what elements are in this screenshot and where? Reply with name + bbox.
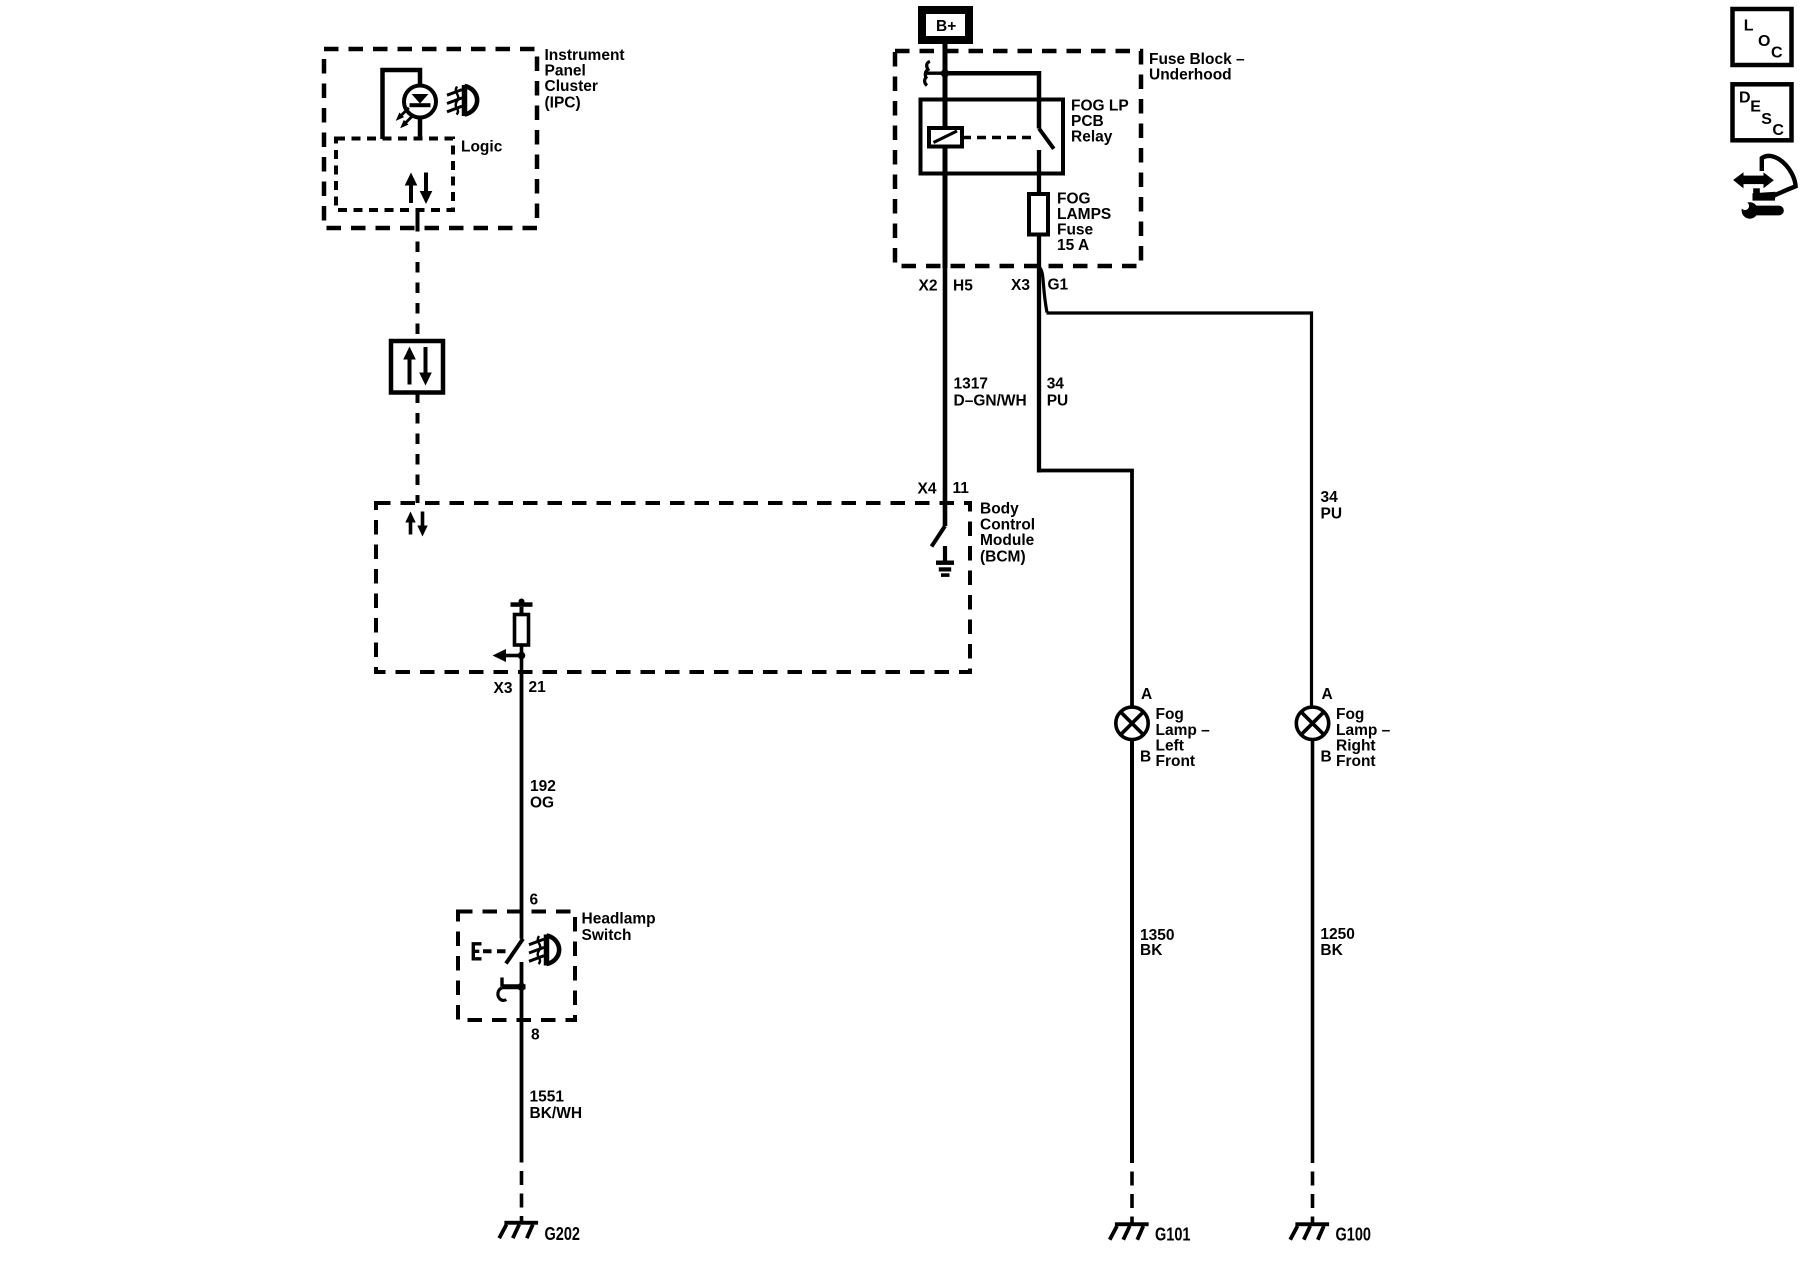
svg-text:34: 34 [1321, 489, 1339, 506]
actuator dashed link [483, 949, 506, 953]
FOG LP PCB Relay box [921, 100, 1064, 174]
label FOG LP PCB Relay [1071, 98, 1129, 146]
fog lamp left front [1116, 707, 1148, 739]
ground G101 [1110, 1222, 1149, 1239]
wire 34 PU to left fog lamp [1039, 471, 1132, 708]
svg-text:X3: X3 [494, 680, 513, 697]
logic down arrow [420, 173, 433, 205]
svg-text:Logic: Logic [461, 139, 503, 156]
label Fog Lamp - Right Front [1336, 706, 1391, 770]
svg-text:(IPC): (IPC) [545, 95, 581, 112]
switch lower contact [498, 978, 526, 1001]
svg-text:G101: G101 [1155, 1224, 1191, 1245]
label Fog Lamp - Left Front [1156, 706, 1211, 770]
Instrument Panel Cluster (IPC) box [324, 49, 537, 228]
svg-text:BK/WH: BK/WH [530, 1105, 583, 1122]
wire label 1317 D-GN/WH [954, 376, 1027, 410]
svg-text:G202: G202 [545, 1223, 581, 1244]
svg-text:FOG: FOG [1057, 191, 1091, 208]
svg-text:Underhood: Underhood [1149, 67, 1232, 84]
wire label 34 PU (left run) [1047, 376, 1069, 410]
DESC reference box [1733, 84, 1792, 140]
svg-text:B: B [1321, 748, 1332, 765]
svg-text:BK: BK [1320, 942, 1343, 959]
svg-text:Lamp –: Lamp – [1336, 722, 1391, 739]
fog lamp icon in IPC [447, 85, 477, 116]
svg-text:B: B [1140, 748, 1151, 765]
junction node on B+ wire [941, 69, 949, 77]
wire dashed serial data box to BCM [416, 393, 420, 504]
wire 34 PU branch to right fog lamp [1047, 313, 1312, 708]
label FOG LAMPS Fuse 15 A [1057, 191, 1111, 255]
svg-text:D–GN/WH: D–GN/WH [954, 393, 1027, 410]
wire label 1250 BK [1320, 926, 1354, 959]
Fuse Block - Underhood box [895, 51, 1141, 266]
wire dashed IPC to serial data box [416, 242, 420, 342]
svg-text:11: 11 [953, 480, 970, 497]
svg-text:21: 21 [529, 679, 547, 696]
double-headed arrow icon [1733, 172, 1774, 188]
svg-text:Switch: Switch [582, 927, 632, 944]
svg-text:Panel: Panel [545, 63, 586, 80]
LED indicator lamp in IPC [404, 86, 436, 118]
switch actuator bracket [473, 944, 481, 959]
svg-text:15 A: 15 A [1057, 237, 1089, 254]
svg-text:Fog: Fog [1156, 706, 1184, 723]
fog lamp icon in headlamp switch [529, 935, 559, 966]
svg-text:PU: PU [1047, 393, 1069, 410]
Logic box [336, 139, 453, 211]
svg-text:G100: G100 [1336, 1224, 1372, 1245]
wire B+ feed down to relay coil [943, 44, 948, 268]
svg-text:Lamp –: Lamp – [1156, 722, 1211, 739]
logic up arrow [405, 173, 418, 204]
wire junction to relay switch [945, 73, 1039, 128]
svg-text:6: 6 [530, 892, 539, 909]
fusible element squiggle [924, 62, 942, 86]
svg-text:X4: X4 [918, 481, 937, 498]
svg-text:FOG LP: FOG LP [1071, 98, 1129, 115]
wrench icon [1741, 202, 1779, 219]
svg-text:1317: 1317 [954, 376, 988, 393]
svg-text:D: D [1739, 90, 1751, 107]
wire label 192 OG [530, 778, 556, 812]
relay actuation dashed link [962, 136, 1034, 140]
svg-text:OG: OG [530, 795, 554, 812]
BCM serial data down arrow [417, 512, 427, 537]
svg-text:O: O [1758, 33, 1770, 50]
LED light emission arrows [393, 108, 413, 131]
svg-text:B+: B+ [936, 18, 956, 35]
wire 1551 BK/WH switch to ground [520, 962, 524, 1163]
fog lamp right front [1296, 707, 1328, 739]
svg-text:L: L [1744, 18, 1754, 35]
wire 192 OG BCM to headlamp switch [520, 672, 524, 939]
svg-text:S: S [1761, 111, 1772, 128]
svg-text:Relay: Relay [1071, 129, 1113, 146]
svg-text:G1: G1 [1048, 277, 1069, 294]
svg-text:Left: Left [1156, 738, 1184, 755]
wire dashed tail to G100 [1311, 1172, 1315, 1223]
svg-text:1250: 1250 [1320, 926, 1354, 943]
wire label 1350 BK [1140, 927, 1174, 959]
wire 1350 BK left lamp to ground [1130, 740, 1134, 1164]
svg-text:Fuse: Fuse [1057, 222, 1094, 239]
wire relay contact to fuse [1037, 150, 1041, 194]
wire 1317 fuse block to BCM [943, 266, 948, 526]
svg-text:Right: Right [1336, 738, 1376, 755]
wire label 34 PU (right run) [1321, 489, 1343, 523]
svg-text:1551: 1551 [530, 1089, 565, 1106]
serial data down arrow [419, 347, 432, 386]
serial data up arrow [403, 347, 416, 385]
svg-text:C: C [1771, 45, 1783, 62]
svg-text:34: 34 [1047, 376, 1065, 393]
ground G202 [499, 1221, 538, 1238]
svg-text:Fuse Block –: Fuse Block – [1149, 51, 1245, 68]
wire LED to Logic box [418, 118, 423, 140]
svg-text:C: C [1772, 122, 1784, 139]
label Fuse Block - Underhood [1149, 51, 1245, 84]
svg-text:H5: H5 [953, 278, 973, 295]
ground G100 [1290, 1222, 1329, 1239]
svg-text:Front: Front [1156, 753, 1196, 770]
label Instrument Panel Cluster (IPC) [545, 47, 625, 112]
svg-text:Control: Control [980, 517, 1035, 534]
wire 1250 BK right lamp to ground [1311, 740, 1315, 1164]
wire Logic box to IPC edge [416, 210, 420, 232]
BCM input resistor [515, 615, 529, 646]
svg-text:A: A [1322, 686, 1333, 703]
svg-text:BK: BK [1140, 942, 1163, 959]
svg-text:8: 8 [531, 1027, 540, 1044]
BCM input pull-up T-bar [511, 599, 533, 615]
svg-text:Module: Module [980, 532, 1035, 549]
wire label 1551 BK/WH [530, 1089, 583, 1123]
svg-text:E: E [1750, 98, 1761, 115]
wire fuse output to X3 [1037, 235, 1041, 268]
svg-text:PU: PU [1321, 506, 1343, 523]
outline arrow icon [1753, 156, 1796, 201]
headlamp switch blade [506, 939, 523, 964]
wire resistor to BCM pin [520, 645, 524, 672]
serial data box [391, 341, 443, 393]
svg-text:LAMPS: LAMPS [1057, 206, 1111, 223]
svg-text:X2: X2 [919, 278, 938, 295]
FOG LAMPS fuse 15 A [1029, 194, 1048, 235]
wire IPC indicator loop [383, 70, 421, 139]
LOC reference box [1733, 9, 1792, 65]
BCM internal ground [936, 546, 954, 577]
svg-text:X3: X3 [1011, 277, 1030, 294]
wire dashed tail to G101 [1130, 1172, 1134, 1223]
power symbol B+ [918, 6, 973, 44]
svg-text:PCB: PCB [1071, 113, 1104, 130]
relay contact blade [1039, 129, 1054, 149]
svg-text:Instrument: Instrument [545, 47, 625, 64]
BCM sense arrow [493, 649, 526, 662]
BCM serial data up arrow [405, 512, 415, 535]
svg-text:Front: Front [1336, 753, 1376, 770]
svg-text:A: A [1141, 686, 1152, 703]
svg-text:Cluster: Cluster [545, 78, 598, 95]
label Body Control Module (BCM) [980, 501, 1035, 566]
wire dashed tail to G202 [520, 1171, 524, 1222]
wire 34 PU main down [1037, 267, 1041, 473]
svg-text:Headlamp: Headlamp [582, 911, 656, 928]
relay coil [929, 128, 962, 147]
svg-text:Body: Body [980, 501, 1019, 518]
svg-text:(BCM): (BCM) [980, 549, 1026, 566]
splice jog [1040, 268, 1047, 313]
svg-text:192: 192 [530, 778, 556, 795]
svg-text:Fog: Fog [1336, 706, 1364, 723]
Body Control Module (BCM) box [376, 503, 970, 672]
BCM driver switch blade [932, 526, 946, 547]
label Headlamp Switch [582, 911, 656, 945]
Headlamp Switch box [458, 912, 575, 1021]
